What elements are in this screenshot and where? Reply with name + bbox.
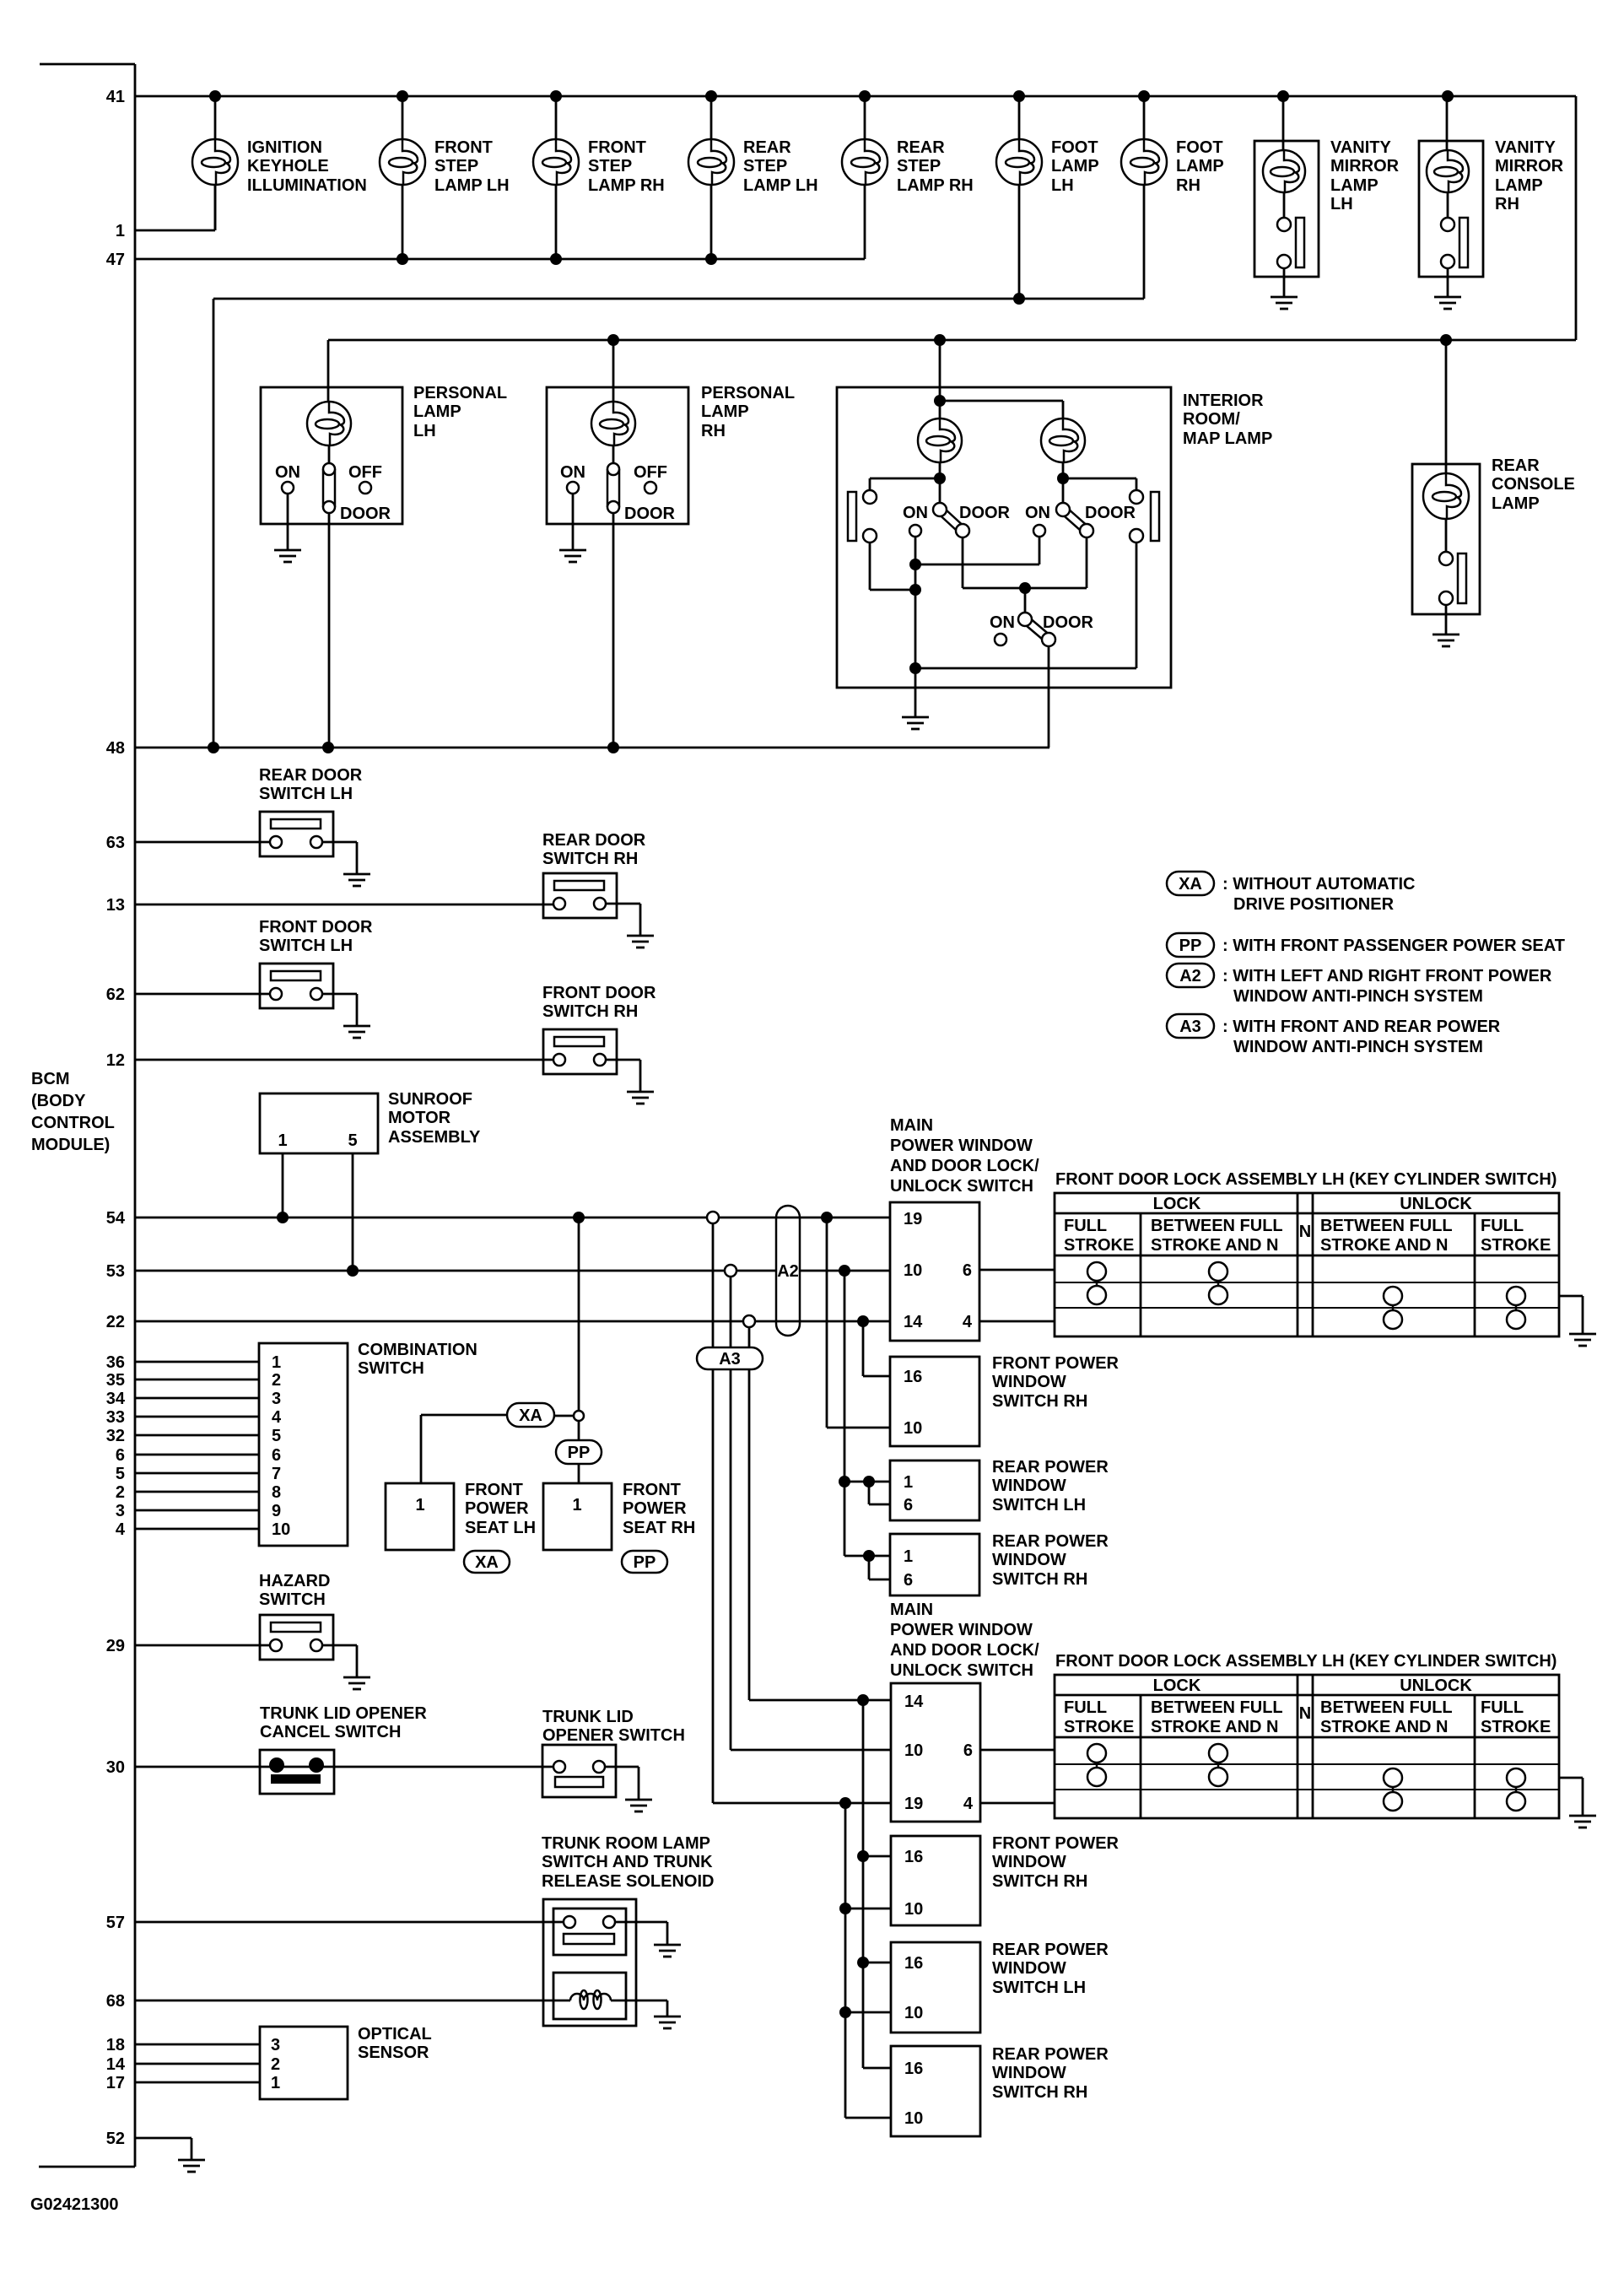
svg-text:FRONT DOOR LOCK ASSEMBLY LH (K: FRONT DOOR LOCK ASSEMBLY LH (KEY CYLINDE… — [1055, 1170, 1557, 1189]
ignition keyhole illumination lamp label — [247, 138, 367, 195]
svg-text:HAZARD: HAZARD — [259, 1572, 330, 1590]
BCM label — [31, 1070, 115, 1154]
front door lock assembly LH key cylinder switch table (upper) ground — [1559, 1296, 1583, 1334]
BCM pin 52 ground — [178, 2160, 205, 2172]
svg-text:AND DOOR LOCK/: AND DOOR LOCK/ — [890, 1157, 1039, 1175]
wire BCM pin 48 row — [135, 747, 1049, 749]
svg-text:16: 16 — [904, 2060, 923, 2078]
combination switch wires and pins — [135, 1353, 290, 1539]
svg-text:19: 19 — [904, 1795, 923, 1813]
svg-text:CANCEL SWITCH: CANCEL SWITCH — [260, 1723, 401, 1741]
front power seat RH — [543, 1483, 612, 1550]
svg-text:SWITCH AND TRUNK: SWITCH AND TRUNK — [542, 1853, 713, 1871]
foot lamp RH — [1121, 139, 1167, 185]
interior room/map lamp switch 3 — [990, 613, 1094, 748]
wire row54 drop to front power window switch RH pin10 — [827, 1217, 890, 1428]
svg-text:2: 2 — [272, 1371, 281, 1390]
interior room/map lamp internal wiring — [848, 462, 1159, 668]
trunk room lamp switch and trunk release solenoid outer box — [543, 1899, 636, 2026]
legend capsule A3 — [1167, 1014, 1214, 1038]
personal lamp RH — [547, 334, 688, 524]
rear power window switch LH (lower) label — [992, 1941, 1109, 1997]
svg-text:6: 6 — [904, 1571, 913, 1590]
svg-text:12: 12 — [106, 1051, 125, 1070]
svg-text:WINDOW: WINDOW — [992, 1959, 1066, 1978]
front door lock assembly LH key cylinder switch table (lower) ground — [1559, 1778, 1583, 1816]
front step lamp LH — [380, 139, 425, 185]
svg-text:POWER WINDOW: POWER WINDOW — [890, 1136, 1033, 1155]
wire XA/PP branch vertical — [554, 1217, 584, 1483]
junction dot foot lamp LH on y354 — [1013, 293, 1025, 305]
front power window switch RH (lower) — [891, 1836, 980, 1925]
svg-text:MAP LAMP: MAP LAMP — [1183, 429, 1272, 448]
legend text A3 — [1222, 1018, 1501, 1056]
svg-text:53: 53 — [106, 1262, 125, 1281]
svg-text:TRUNK LID: TRUNK LID — [542, 1708, 634, 1726]
personal lamp RH switch — [560, 445, 676, 748]
junction dots on row 41 — [209, 90, 1454, 102]
svg-text:5: 5 — [272, 1427, 281, 1445]
svg-text:41: 41 — [106, 88, 125, 106]
wire BCM pin 68 row — [135, 2000, 570, 2002]
svg-text:17: 17 — [106, 2074, 125, 2092]
svg-text:ON: ON — [275, 463, 300, 482]
svg-text:FRONT POWER: FRONT POWER — [992, 1834, 1120, 1853]
svg-text:52: 52 — [106, 2130, 125, 2148]
svg-text:SWITCH LH: SWITCH LH — [992, 1496, 1086, 1514]
svg-text:CONSOLE: CONSOLE — [1492, 475, 1575, 494]
wire feed for ignition keyhole illumination lamp — [214, 96, 217, 230]
svg-text:STROKE AND N: STROKE AND N — [1151, 1236, 1278, 1255]
svg-text:WINDOW: WINDOW — [992, 1853, 1066, 1871]
svg-text:WINDOW: WINDOW — [992, 1551, 1066, 1569]
wire A3 drop to pin14 row — [749, 1369, 891, 1700]
vanity mirror lamp LH switch contacts — [1277, 192, 1304, 297]
svg-text:PP: PP — [568, 1444, 591, 1462]
svg-text:SWITCH LH: SWITCH LH — [259, 937, 353, 955]
svg-text:OPTICAL: OPTICAL — [358, 2025, 432, 2044]
wire drop row19 to lower window switch pin10s — [839, 1803, 891, 2118]
svg-text:COMBINATION: COMBINATION — [358, 1341, 477, 1359]
combination switch — [259, 1343, 348, 1546]
rear console lamp contacts — [1439, 519, 1466, 634]
svg-text:30: 30 — [106, 1758, 125, 1777]
svg-text:SWITCH LH: SWITCH LH — [259, 785, 353, 803]
svg-text:KEYHOLE: KEYHOLE — [247, 157, 329, 175]
svg-text:RH: RH — [1176, 176, 1200, 195]
front power window switch RH (upper) — [890, 1357, 979, 1446]
wire BCM pin 47 return row — [135, 258, 865, 261]
legend capsule A2 — [1167, 964, 1214, 987]
svg-text:14: 14 — [904, 1313, 923, 1331]
trunk lid opener cancel switch — [260, 1750, 334, 1794]
svg-text:STEP: STEP — [743, 157, 787, 175]
wire BCM pin 22 row — [135, 1320, 890, 1323]
svg-text:STROKE AND N: STROKE AND N — [1320, 1236, 1448, 1255]
connector option XA on wire — [507, 1403, 554, 1427]
svg-text:ON: ON — [903, 504, 928, 522]
rear console lamp label — [1492, 456, 1575, 513]
trunk lid opener switch label — [542, 1708, 685, 1745]
svg-text:34: 34 — [106, 1390, 126, 1408]
wire row22 drop to front power window switch RH pin16 — [863, 1321, 890, 1376]
svg-text:STEP: STEP — [588, 157, 632, 175]
svg-text:LAMP: LAMP — [1051, 157, 1099, 175]
svg-text:1: 1 — [415, 1496, 424, 1514]
svg-text:ON: ON — [990, 613, 1015, 632]
svg-text:REAR: REAR — [897, 138, 945, 157]
trunk room lamp switch ground — [654, 1945, 681, 1957]
svg-text:LOCK: LOCK — [1153, 1195, 1201, 1213]
svg-text:1: 1 — [904, 1547, 913, 1566]
personal lamp LH switch — [275, 445, 391, 748]
svg-text:ON: ON — [1025, 504, 1050, 522]
svg-text:SWITCH: SWITCH — [358, 1359, 424, 1378]
svg-text:N: N — [1299, 1223, 1311, 1241]
svg-text:: WITH FRONT PASSENGER POWER S: : WITH FRONT PASSENGER POWER SEAT — [1222, 937, 1565, 955]
svg-text:REAR POWER: REAR POWER — [992, 1458, 1109, 1477]
rear console lamp ground — [1432, 634, 1459, 646]
trunk release solenoid ground — [654, 2017, 681, 2028]
interior room/map lamp ground — [902, 717, 929, 729]
svg-text:SUNROOF: SUNROOF — [388, 1090, 472, 1109]
wire pin6 lower to lock table — [980, 1749, 1055, 1752]
svg-text:VANITY: VANITY — [1330, 138, 1392, 157]
svg-text:FULL: FULL — [1481, 1217, 1524, 1235]
connector A3 — [697, 1347, 763, 1369]
wire pin6 upper to lock table — [979, 1269, 1055, 1271]
svg-text:10: 10 — [904, 1900, 923, 1919]
front step lamp LH label — [434, 138, 510, 195]
svg-text:PP: PP — [634, 1553, 656, 1572]
wire BCM pin 53 row — [135, 1270, 890, 1272]
wire feed for foot lamp RH — [1143, 96, 1146, 299]
svg-text:(BODY: (BODY — [31, 1092, 86, 1110]
front door lock assembly LH key cylinder switch table (lower) — [1055, 1652, 1559, 1818]
svg-text:POWER WINDOW: POWER WINDOW — [890, 1621, 1033, 1639]
svg-text:G02421300: G02421300 — [30, 2195, 119, 2214]
svg-text:68: 68 — [106, 1992, 125, 2011]
svg-text:POWER: POWER — [623, 1499, 687, 1518]
personal lamp LH label — [413, 384, 507, 440]
svg-text:36: 36 — [106, 1353, 125, 1372]
connector A2 capsule — [776, 1206, 800, 1336]
svg-text:DOOR: DOOR — [959, 504, 1011, 522]
svg-text:SEAT RH: SEAT RH — [623, 1519, 695, 1537]
svg-text:LAMP RH: LAMP RH — [588, 176, 665, 195]
svg-text:FRONT: FRONT — [465, 1481, 523, 1499]
svg-text:SWITCH RH: SWITCH RH — [542, 1002, 638, 1021]
svg-text:SENSOR: SENSOR — [358, 2044, 429, 2062]
svg-text:: WITHOUT AUTOMATIC: : WITHOUT AUTOMATIC — [1222, 875, 1415, 894]
svg-text:18: 18 — [106, 2036, 125, 2054]
svg-text:UNLOCK: UNLOCK — [1400, 1195, 1472, 1213]
svg-text:10: 10 — [904, 1261, 922, 1280]
svg-text:62: 62 — [106, 985, 125, 1004]
svg-text:10: 10 — [272, 1520, 290, 1539]
wire feed for rear step lamp LH — [710, 96, 713, 259]
svg-text:FRONT: FRONT — [588, 138, 646, 157]
svg-text:A3: A3 — [719, 1350, 741, 1369]
svg-text:6: 6 — [963, 1741, 973, 1760]
rear power window switch LH (lower) — [891, 1942, 980, 2033]
svg-text:DOOR: DOOR — [340, 505, 391, 523]
combination switch label — [358, 1341, 477, 1378]
front door switch LH — [260, 964, 357, 1025]
svg-text:XA: XA — [475, 1553, 499, 1572]
svg-text:DOOR: DOOR — [1043, 613, 1094, 632]
svg-text:OFF: OFF — [348, 463, 382, 482]
rear door switch RH — [543, 873, 640, 935]
optical sensor — [135, 2027, 348, 2099]
front power seat LH — [386, 1483, 454, 1550]
svg-text:MODULE): MODULE) — [31, 1136, 110, 1154]
svg-text:FULL: FULL — [1064, 1217, 1107, 1235]
foot lamp RH label — [1176, 138, 1224, 195]
svg-text:REAR DOOR: REAR DOOR — [259, 766, 363, 785]
svg-text:1: 1 — [904, 1473, 913, 1492]
svg-text:BETWEEN FULL: BETWEEN FULL — [1151, 1217, 1283, 1235]
svg-text:MIRROR: MIRROR — [1330, 157, 1400, 175]
svg-text:SWITCH LH: SWITCH LH — [992, 1979, 1086, 1997]
svg-text:MOTOR: MOTOR — [388, 1109, 451, 1127]
svg-text:MIRROR: MIRROR — [1495, 157, 1564, 175]
svg-text:XA: XA — [1179, 875, 1202, 894]
legend capsule XA — [1167, 872, 1214, 895]
wire XA branch to front power seat LH — [421, 1415, 508, 1483]
svg-text:BETWEEN FULL: BETWEEN FULL — [1151, 1698, 1283, 1717]
svg-text:RH: RH — [701, 422, 726, 440]
svg-text:FRONT: FRONT — [434, 138, 493, 157]
svg-text:A2: A2 — [1179, 967, 1201, 985]
wire feed for front step lamp LH — [402, 96, 404, 259]
svg-text:CONTROL: CONTROL — [31, 1114, 115, 1132]
personal lamp RH label — [701, 384, 795, 440]
svg-text:TRUNK ROOM LAMP: TRUNK ROOM LAMP — [542, 1834, 710, 1853]
wire BCM pin 29 — [135, 1644, 270, 1647]
front door switch LH label — [259, 918, 373, 955]
legend capsule PP — [1167, 933, 1214, 957]
svg-text:16: 16 — [904, 1368, 922, 1386]
svg-text:REAR DOOR: REAR DOOR — [542, 831, 646, 850]
front door switch LH ground — [343, 1026, 370, 1038]
rear power window switch RH (upper) label — [992, 1532, 1109, 1589]
wire pin4 upper to lock table — [979, 1320, 1055, 1323]
svg-text:SWITCH RH: SWITCH RH — [992, 1392, 1087, 1411]
svg-text:33: 33 — [106, 1408, 125, 1427]
wire foot lamp return row y=354 — [213, 298, 1144, 300]
svg-text:1: 1 — [572, 1496, 581, 1514]
vanity mirror lamp RH bulb — [1427, 150, 1469, 192]
svg-text:REAR: REAR — [743, 138, 791, 157]
sunroof motor assembly label — [388, 1090, 481, 1147]
svg-text:SWITCH RH: SWITCH RH — [992, 1570, 1087, 1589]
legend text A2 — [1222, 967, 1552, 1006]
svg-text:ASSEMBLY: ASSEMBLY — [388, 1128, 481, 1147]
svg-text:STROKE: STROKE — [1481, 1718, 1551, 1736]
svg-text:1: 1 — [116, 222, 125, 240]
svg-text:PERSONAL: PERSONAL — [413, 384, 507, 402]
trunk lid opener switch ground — [625, 1800, 652, 1811]
svg-text:: WITH LEFT AND RIGHT FRONT PO: : WITH LEFT AND RIGHT FRONT POWER — [1222, 967, 1552, 985]
svg-text:19: 19 — [904, 1210, 922, 1228]
svg-text:LOCK: LOCK — [1153, 1676, 1201, 1695]
svg-text:BETWEEN FULL: BETWEEN FULL — [1320, 1217, 1453, 1235]
personal lamp LH ON ground — [274, 550, 301, 562]
wire feed for rear step lamp RH — [864, 96, 866, 259]
front door lock assembly LH key cylinder switch table (upper) — [1055, 1170, 1559, 1336]
svg-text:2: 2 — [116, 1483, 125, 1502]
svg-text:BETWEEN FULL: BETWEEN FULL — [1320, 1698, 1453, 1717]
svg-text:8: 8 — [272, 1483, 281, 1502]
rear console lamp feed wire — [1412, 334, 1480, 614]
rear step lamp LH — [688, 139, 734, 185]
svg-text:47: 47 — [106, 251, 125, 269]
hazard switch label — [259, 1572, 330, 1609]
svg-text:LAMP: LAMP — [1495, 176, 1543, 195]
svg-text:STROKE: STROKE — [1064, 1236, 1134, 1255]
svg-text:ILLUMINATION: ILLUMINATION — [247, 176, 367, 195]
svg-text:LAMP: LAMP — [1330, 176, 1379, 195]
vanity mirror lamp RH — [1419, 96, 1483, 277]
wire A3 drop to pin10 row — [731, 1369, 891, 1750]
main power window and door lock/unlock switch (upper) label — [890, 1116, 1039, 1196]
svg-text:16: 16 — [904, 1848, 923, 1866]
junction dots rows 54/53/22 — [277, 1212, 869, 1327]
rear power window switch RH (upper) — [890, 1534, 979, 1595]
svg-text:29: 29 — [106, 1637, 125, 1655]
svg-text:STROKE AND N: STROKE AND N — [1151, 1718, 1278, 1736]
svg-text:LAMP: LAMP — [413, 402, 461, 421]
wire BCM pin 62 — [135, 993, 270, 996]
svg-text:10: 10 — [904, 2109, 923, 2128]
svg-text:LAMP: LAMP — [701, 402, 749, 421]
svg-text:WINDOW ANTI-PINCH SYSTEM: WINDOW ANTI-PINCH SYSTEM — [1233, 987, 1483, 1006]
svg-text:STROKE: STROKE — [1064, 1718, 1134, 1736]
svg-text:63: 63 — [106, 834, 125, 852]
svg-text:7: 7 — [272, 1465, 281, 1483]
svg-text:SEAT LH: SEAT LH — [465, 1519, 536, 1537]
main power window and door lock/unlock switch (lower) — [891, 1683, 980, 1822]
svg-text:48: 48 — [106, 739, 125, 758]
personal lamp LH bulb — [307, 402, 351, 445]
interior room/map lamp feed — [934, 334, 1063, 418]
svg-text:35: 35 — [106, 1371, 125, 1390]
wire sunroof pin 5 to row 53 — [352, 1153, 354, 1271]
interior room/map lamp switch 2 — [1025, 503, 1136, 537]
trunk release solenoid — [553, 1973, 667, 2019]
svg-text:FRONT: FRONT — [623, 1481, 681, 1499]
svg-text:RELEASE SOLENOID: RELEASE SOLENOID — [542, 1872, 714, 1891]
vanity mirror lamp RH switch contacts — [1441, 192, 1468, 297]
svg-text:22: 22 — [106, 1313, 125, 1331]
wires through A2 — [776, 1217, 800, 1321]
svg-text:STEP: STEP — [434, 157, 478, 175]
rear door switch LH ground — [343, 874, 370, 886]
rear step lamp RH — [842, 139, 888, 185]
vanity mirror lamp LH ground — [1271, 297, 1298, 309]
wire BCM pin 12 — [135, 1059, 553, 1061]
front door lock assembly LH key cylinder switch table (lower) ground symbol — [1569, 1816, 1596, 1828]
svg-text:A3: A3 — [1179, 1018, 1201, 1036]
svg-text:5: 5 — [116, 1465, 125, 1483]
svg-text:54: 54 — [106, 1209, 126, 1228]
svg-text:1: 1 — [271, 2074, 280, 2092]
main power window and door lock/unlock switch (lower) label — [890, 1601, 1039, 1680]
foot lamp LH label — [1051, 138, 1099, 195]
front power window switch RH (upper) label — [992, 1354, 1120, 1411]
junction dots on row 47 — [397, 253, 717, 265]
rear power window switch LH (upper) — [890, 1460, 979, 1520]
svg-text:13: 13 — [106, 896, 125, 915]
wire BCM pin 54 row — [135, 1217, 890, 1219]
rear power window switch RH (lower) label — [992, 2045, 1109, 2102]
rear step lamp RH label — [897, 138, 974, 195]
front door switch RH label — [542, 984, 656, 1021]
svg-text:POWER: POWER — [465, 1499, 529, 1518]
svg-text:ON: ON — [560, 463, 585, 482]
svg-text:SWITCH RH: SWITCH RH — [992, 2083, 1087, 2102]
trunk room lamp switch — [553, 1909, 667, 1955]
BCM (Body Control Module) bus — [39, 64, 135, 2167]
wire BCM pin 13 — [135, 904, 553, 906]
wire vertical x=253 to row 48 — [213, 299, 215, 748]
svg-text:PERSONAL: PERSONAL — [701, 384, 795, 402]
svg-text:STEP: STEP — [897, 157, 941, 175]
connector circles rows 54/53/22 — [707, 1212, 755, 1327]
vanity mirror lamp RH ground — [1434, 297, 1461, 309]
svg-text:VANITY: VANITY — [1495, 138, 1557, 157]
svg-text:OPENER SWITCH: OPENER SWITCH — [542, 1726, 685, 1745]
svg-text:FRONT DOOR: FRONT DOOR — [542, 984, 656, 1002]
svg-text:UNLOCK: UNLOCK — [1400, 1676, 1472, 1695]
svg-text:A2: A2 — [777, 1262, 799, 1281]
svg-text:LAMP LH: LAMP LH — [434, 176, 510, 195]
rear power window switch RH (lower) — [891, 2046, 980, 2136]
svg-text:: WITH FRONT AND REAR POWER: : WITH FRONT AND REAR POWER — [1222, 1018, 1501, 1036]
junction dots on row 48 — [208, 742, 619, 753]
svg-text:3: 3 — [116, 1502, 125, 1520]
trunk room lamp switch and trunk release solenoid label — [542, 1834, 714, 1891]
svg-text:FOOT: FOOT — [1176, 138, 1223, 157]
connector option PP on wire — [556, 1440, 602, 1464]
sunroof motor assembly — [260, 1093, 378, 1153]
svg-text:REAR POWER: REAR POWER — [992, 2045, 1109, 2064]
svg-text:3: 3 — [271, 2036, 280, 2054]
wire BCM pin 41 bus row — [135, 95, 1576, 98]
front step lamp RH label — [588, 138, 665, 195]
svg-text:4: 4 — [116, 1520, 126, 1539]
interior room/map lamp bulb 1 — [918, 418, 962, 462]
svg-text:OFF: OFF — [634, 463, 667, 482]
interior room/map lamp switch 1 — [903, 503, 1011, 537]
svg-text:INTERIOR: INTERIOR — [1183, 391, 1264, 410]
wire row53 drop to rear power window switches — [839, 1271, 890, 1579]
vanity mirror lamp LH label — [1330, 138, 1400, 213]
interior room/map lamp bulb 2 — [1041, 418, 1085, 462]
svg-text:PP: PP — [1179, 937, 1202, 955]
trunk lid opener cancel switch label — [260, 1704, 427, 1741]
personal lamp RH bulb — [591, 402, 635, 445]
svg-text:LH: LH — [1051, 176, 1074, 195]
svg-text:14: 14 — [904, 1693, 924, 1711]
wire BCM pin 30 row — [135, 1766, 553, 1768]
wire A3 drop to pin19 row — [713, 1369, 891, 1803]
svg-text:DRIVE POSITIONER: DRIVE POSITIONER — [1233, 895, 1395, 914]
rear power window switch LH (upper) label — [992, 1458, 1109, 1514]
option tag XA below seat LH — [464, 1551, 510, 1573]
svg-text:FRONT DOOR LOCK ASSEMBLY LH (K: FRONT DOOR LOCK ASSEMBLY LH (KEY CYLINDE… — [1055, 1652, 1557, 1671]
